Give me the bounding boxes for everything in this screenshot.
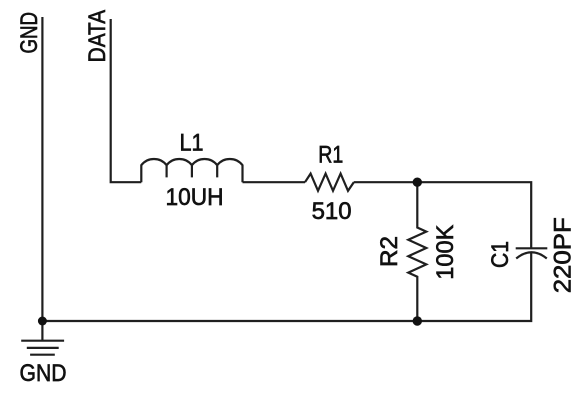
svg-text:C1: C1 [488, 241, 514, 268]
svg-text:GND: GND [20, 361, 67, 387]
svg-text:10UH: 10UH [166, 185, 224, 211]
node junction R1/R2/C1 [413, 178, 422, 187]
svg-text:GND: GND [17, 12, 43, 54]
svg-text:R1: R1 [318, 143, 343, 169]
wire L1 to R1 [243, 181, 306, 183]
wire bottom return [42, 253, 531, 321]
ground symbol [41, 321, 43, 341]
svg-text:R2: R2 [377, 236, 403, 267]
svg-text:510: 510 [312, 199, 352, 225]
node junction GND rail/ground [38, 317, 47, 326]
inductor L1 [141, 159, 242, 182]
wire R1 to C1 top [354, 182, 532, 248]
svg-text:L1: L1 [180, 130, 204, 156]
node junction R2/ground rail [413, 316, 422, 325]
resistor R2 [408, 182, 426, 321]
svg-text:220PF: 220PF [550, 217, 576, 293]
wire GND vertical rail [41, 17, 43, 321]
svg-text:DATA: DATA [85, 10, 111, 63]
wire DATA vertical drop [111, 19, 142, 182]
capacitor C1 [516, 247, 548, 249]
svg-text:100K: 100K [433, 225, 459, 280]
resistor R1 [305, 174, 354, 191]
